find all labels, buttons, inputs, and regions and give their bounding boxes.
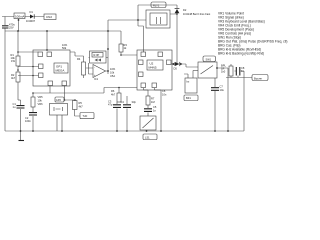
svg-text:D1: D1: [30, 10, 34, 14]
svg-text:D2: D2: [183, 8, 187, 12]
svg-text:100n: 100n: [25, 119, 31, 123]
svg-text:1M: 1M: [151, 100, 155, 104]
svg-text:4k7: 4k7: [111, 93, 116, 97]
svg-text:SW1: SW1: [206, 57, 212, 61]
svg-text:R6: R6: [111, 89, 115, 93]
svg-text:1N4148 Bat 0.3ms Fast: 1N4148 Bat 0.3ms Fast: [183, 12, 211, 16]
svg-text:100mA: 100mA: [15, 14, 25, 18]
svg-text:1k0: 1k0: [221, 70, 226, 74]
svg-text:C6: C6: [162, 89, 166, 93]
svg-text:CN2: CN2: [46, 15, 52, 19]
svg-text:LS1: LS1: [145, 135, 150, 139]
svg-text:1W: 1W: [11, 59, 15, 63]
svg-text:M4N5: M4N5: [149, 66, 157, 70]
svg-text:4k7: 4k7: [11, 76, 16, 80]
svg-text:C7: C7: [220, 85, 224, 89]
svg-text:bz: bz: [187, 80, 190, 84]
svg-text:VR5: VR5: [38, 95, 44, 99]
svg-text:IC1: IC1: [94, 77, 99, 81]
svg-text:C4: C4: [121, 100, 125, 104]
svg-text:MEGA: MEGA: [56, 69, 65, 73]
svg-text:10k: 10k: [110, 71, 115, 75]
svg-text:TxD: TxD: [83, 114, 88, 118]
svg-text:10%: 10%: [110, 67, 116, 71]
svg-text:1N4007: 1N4007: [26, 19, 36, 23]
svg-text:U5A: U5A: [110, 74, 115, 78]
svg-text:Buzzer: Buzzer: [254, 76, 262, 80]
svg-text:GP2: GP2: [56, 98, 62, 102]
svg-text:10k: 10k: [38, 99, 43, 103]
svg-text:D5: D5: [174, 67, 178, 71]
svg-text:10u: 10u: [220, 88, 225, 92]
svg-text:33p: 33p: [132, 100, 137, 104]
svg-text:47p: 47p: [108, 103, 113, 107]
svg-text:+: +: [94, 74, 96, 77]
svg-text:R4: R4: [77, 57, 81, 61]
svg-text:25V: 25V: [9, 26, 14, 30]
svg-text:VR6: VR6: [38, 102, 44, 106]
svg-text:4k7: 4k7: [79, 105, 84, 109]
svg-text:RLY1: RLY1: [153, 3, 160, 7]
svg-text:1n: 1n: [153, 109, 156, 113]
svg-text:C5: C5: [153, 105, 157, 109]
svg-text:50k: 50k: [62, 46, 67, 50]
svg-text:-: -: [94, 67, 95, 70]
svg-text:R7: R7: [151, 97, 155, 101]
svg-text:BRG kHz Backing (res/I/Bp Rnd): BRG kHz Backing (res/I/Bp Rnd): [218, 52, 264, 56]
svg-text:10n: 10n: [162, 93, 167, 97]
svg-text:BZ1: BZ1: [186, 96, 191, 100]
svg-text:R.0P: R.0P: [94, 53, 100, 57]
svg-text:R5: R5: [79, 101, 83, 105]
